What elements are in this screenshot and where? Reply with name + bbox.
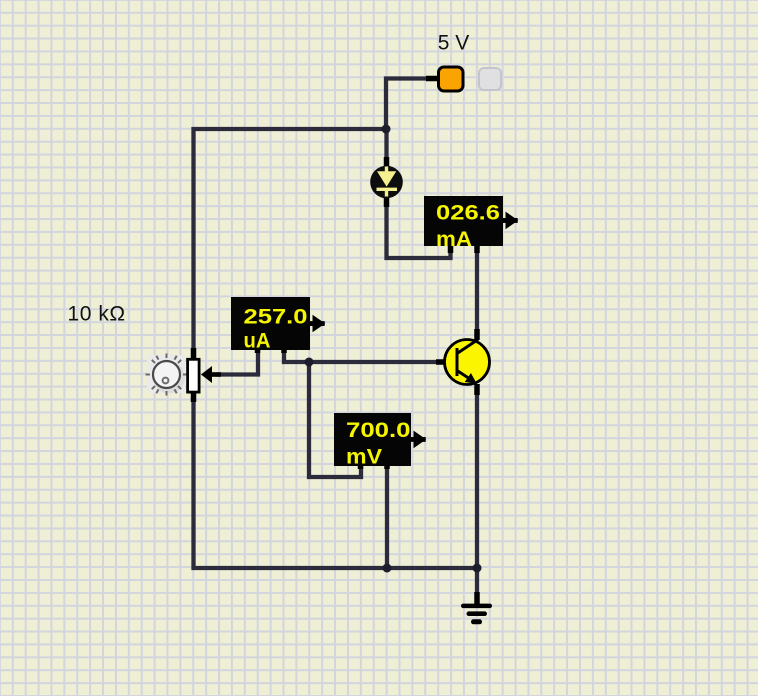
svg-text:5 V: 5 V [438,32,470,55]
svg-text:026.6: 026.6 [436,201,500,225]
svg-text:10 kΩ: 10 kΩ [68,303,126,326]
svg-text:700.0: 700.0 [346,418,411,442]
svg-text:mV: mV [346,445,383,469]
svg-text:257.0: 257.0 [244,305,308,329]
svg-text:mA: mA [436,227,472,251]
svg-text:uA: uA [244,329,271,353]
